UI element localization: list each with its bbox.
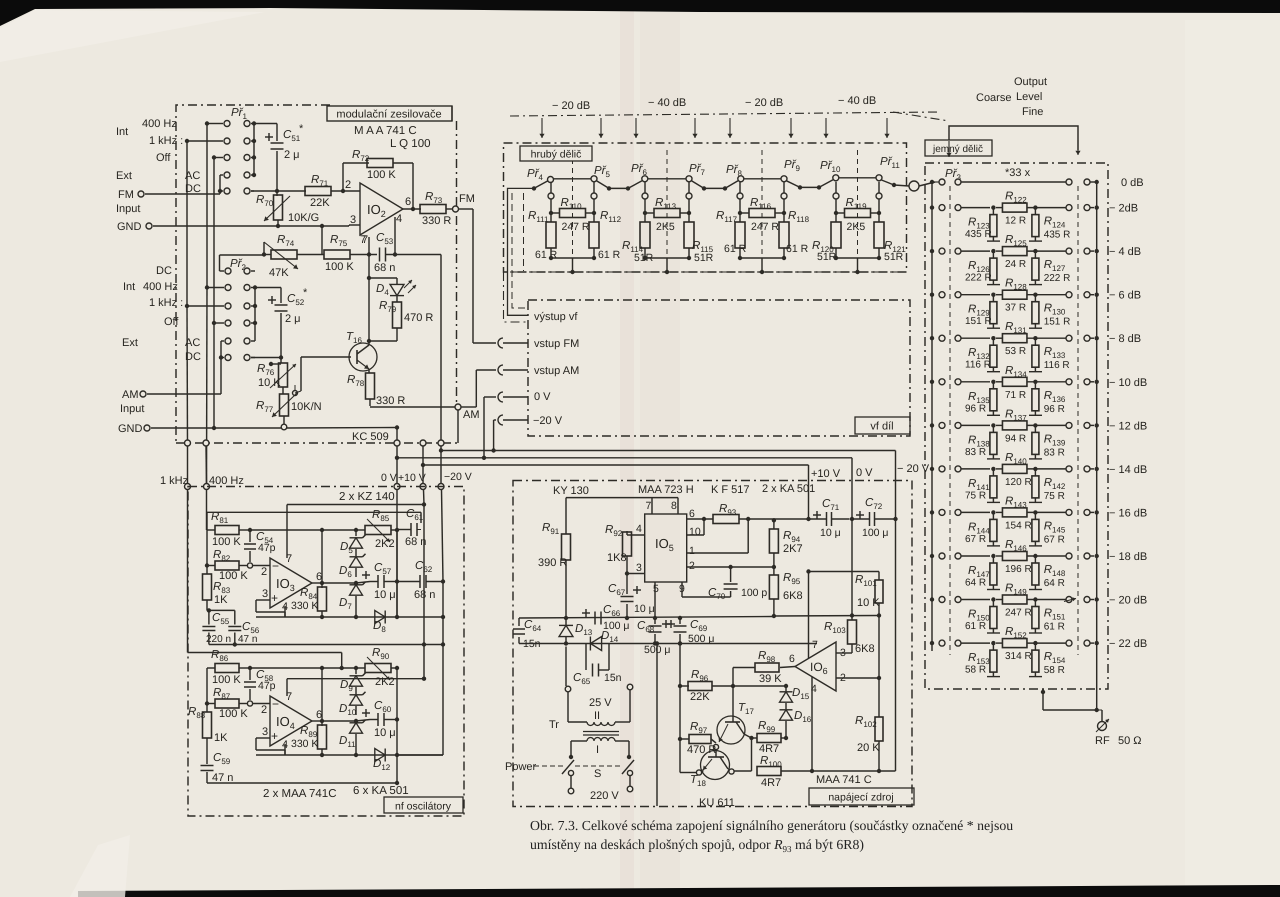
svg-text:2K2: 2K2 (375, 538, 395, 550)
PK1 bus (253, 124, 255, 176)
switch coupling dashed right (1077, 186, 1079, 655)
svg-text:22K: 22K (310, 197, 330, 209)
svg-text:12 R: 12 R (1005, 216, 1026, 227)
pin9 wire (681, 582, 683, 597)
resistor R91 (565, 498, 567, 534)
svg-text:51R: 51R (694, 252, 714, 264)
svg-text:5: 5 (653, 583, 659, 595)
capacitor C59 (206, 749, 208, 765)
column -10 left (679, 644, 681, 740)
svg-text:nf oscilátory: nf oscilátory (395, 801, 452, 813)
pin3 bracket (256, 599, 270, 601)
resistor R115 (684, 222, 694, 248)
resistor R150 (992, 600, 994, 607)
svg-text:20 K: 20 K (857, 742, 880, 754)
svg-text:2K5: 2K5 (847, 221, 866, 233)
svg-text:10K/G: 10K/G (288, 212, 319, 224)
wire Off to PK2 (214, 322, 224, 324)
svg-text:napájecí zdroj: napájecí zdroj (828, 792, 893, 804)
napajeci zdroj label box (809, 788, 914, 805)
svg-text:M A A 741 C: M A A 741 C (354, 125, 417, 137)
attenuator section R119 (833, 193, 839, 199)
svg-text:− 40 dB: − 40 dB (648, 97, 686, 109)
svg-text:61 R: 61 R (1044, 622, 1065, 633)
svg-text:61 R: 61 R (786, 243, 809, 255)
capacitor C_out C57 (362, 574, 370, 576)
svg-text:314 R: 314 R (1005, 651, 1032, 662)
op-amp IO6 (795, 642, 836, 691)
capacitor C66 (594, 612, 596, 625)
resistor R73 (420, 205, 446, 214)
svg-text:− 22 dB: − 22 dB (1109, 638, 1147, 650)
resistor R83 (205, 563, 209, 567)
svg-text:vf díl: vf díl (870, 421, 893, 433)
collector node (367, 339, 371, 343)
node pin2 (331, 190, 360, 192)
transistor T16 (349, 343, 377, 371)
op-amp IO3 (270, 558, 312, 608)
svg-text:330 R: 330 R (376, 395, 405, 407)
svg-text:4: 4 (636, 523, 642, 535)
resistor R151 (1034, 600, 1036, 607)
pin3 wire (627, 573, 645, 575)
osc1 ground return (209, 644, 443, 646)
svg-text:0 V: 0 V (856, 467, 873, 479)
resistor R94 (773, 520, 775, 529)
svg-text:Output: Output (1014, 76, 1047, 88)
wire 400Hz feed osc1 (206, 490, 208, 531)
svg-text:vstup AM: vstup AM (534, 365, 579, 377)
resistor R97 (680, 738, 689, 740)
transformer core (583, 731, 619, 733)
capacitor C53 (379, 248, 381, 262)
wire DC2 to R76 node (251, 357, 281, 359)
resistor R111 (546, 222, 556, 248)
IC IO5 (645, 514, 687, 582)
svg-text:400 Hz: 400 Hz (209, 475, 244, 487)
rail -20V horizontal (438, 440, 444, 446)
-20V wire to vf (493, 420, 495, 451)
wire 400Hz to PK2 (207, 287, 224, 289)
svg-text:2K5: 2K5 (656, 221, 675, 233)
diode D14 (590, 637, 601, 651)
svg-text:Fine: Fine (1022, 106, 1043, 118)
resistor R103 (848, 620, 857, 644)
svg-text:hrubý dělič: hrubý dělič (531, 149, 582, 161)
transistor T18 (701, 751, 730, 780)
transformer primary (587, 738, 615, 742)
svg-text:58 R: 58 R (965, 665, 986, 676)
diode D12 (375, 749, 385, 762)
svg-text:−: − (272, 559, 279, 573)
svg-text:247 R: 247 R (562, 221, 590, 233)
+10V column osc (423, 505, 425, 679)
svg-text:120 R: 120 R (1005, 477, 1032, 488)
svg-text:435 R: 435 R (965, 229, 992, 240)
svg-text:100 K: 100 K (367, 169, 396, 181)
svg-text:DC: DC (156, 265, 172, 277)
svg-text:51R: 51R (884, 251, 904, 263)
node column T17 (732, 668, 734, 717)
pin7 wire (286, 679, 288, 696)
svg-text:0 dB: 0 dB (1121, 177, 1144, 189)
resistor R138 (992, 425, 994, 432)
resistor R139 (1034, 425, 1036, 432)
svg-text:25 V: 25 V (589, 697, 612, 709)
svg-text:151 R: 151 R (1044, 317, 1071, 328)
svg-text:Ext: Ext (122, 337, 138, 349)
svg-text:96 R: 96 R (965, 403, 986, 414)
svg-text:330 K: 330 K (291, 738, 318, 750)
svg-text:64 R: 64 R (1044, 578, 1065, 589)
svg-text:KC 509: KC 509 (352, 431, 389, 443)
svg-text:83 R: 83 R (1044, 447, 1065, 458)
svg-text:1 kHz :: 1 kHz : (149, 297, 183, 309)
RF connector (1098, 722, 1107, 731)
bus sag 2-3 (692, 181, 705, 189)
svg-text:FM: FM (118, 189, 134, 201)
wire R75 to C53 (350, 254, 377, 256)
svg-text:Input: Input (116, 203, 140, 215)
svg-text:*: * (299, 123, 304, 135)
svg-text:−20 V: −20 V (444, 471, 472, 483)
svg-text:S: S (594, 768, 601, 780)
capacitor C69 (678, 616, 682, 620)
resistor R89 (312, 720, 322, 722)
resistor R92 (627, 534, 645, 536)
resistor R119 (845, 209, 871, 218)
diode D13 (559, 625, 573, 636)
svg-text:Int: Int (116, 126, 128, 138)
ladder rail − 6 dB (930, 293, 934, 297)
ladder right bus (1096, 182, 1098, 710)
resistor R100 (757, 767, 781, 776)
svg-text:+: + (271, 729, 278, 743)
psu column 0V down (851, 519, 853, 620)
svg-text:4R7: 4R7 (761, 777, 781, 789)
section ground joins (739, 248, 741, 258)
svg-text:75 R: 75 R (965, 490, 986, 501)
svg-text:470 R: 470 R (687, 744, 716, 756)
resistor R148 (1034, 556, 1036, 563)
bus within section 1 (554, 178, 591, 180)
svg-text:220 n: 220 n (206, 634, 231, 645)
resistor R134 (1002, 377, 1026, 386)
resistor R135 (992, 382, 994, 389)
capacitor C65 (585, 644, 587, 671)
capacitor C71 (813, 514, 821, 516)
resistor R113 (654, 209, 680, 218)
svg-text:47 n: 47 n (212, 772, 233, 784)
GND AM wire (151, 427, 281, 429)
resistor R145 (1034, 512, 1036, 519)
svg-text:− 20 dB: − 20 dB (552, 100, 590, 112)
svg-text:6: 6 (405, 196, 411, 208)
resistor R132 (992, 338, 994, 345)
svg-text:I: I (596, 744, 599, 756)
capacitor C52 (255, 287, 281, 289)
ladder rail − 12 dB (930, 423, 934, 427)
diode chain (354, 528, 358, 532)
svg-text:116 R: 116 R (965, 360, 991, 371)
output row (322, 582, 356, 584)
svg-text:4: 4 (396, 213, 402, 225)
svg-text:GND: GND (118, 423, 143, 435)
resistor R75 (297, 254, 324, 256)
dB bracket line (510, 112, 940, 116)
svg-text:1K8: 1K8 (607, 552, 627, 564)
wire PK2 DC to R74 (219, 255, 221, 271)
svg-text:100 K: 100 K (212, 536, 241, 548)
vertical +10V PSU (808, 465, 810, 519)
svg-text:KU 611: KU 611 (699, 797, 735, 809)
attenuator bottom bus (510, 271, 906, 273)
svg-text:− 4 dB: − 4 dB (1109, 246, 1141, 258)
svg-text:výstup vf: výstup vf (534, 311, 578, 323)
wire DC row to R70 node (251, 190, 277, 192)
svg-text:100 μ: 100 μ (862, 527, 889, 539)
psu bottom row (734, 770, 752, 772)
resistor R136 (1034, 382, 1036, 389)
svg-text:8: 8 (671, 500, 677, 512)
output big circle (909, 181, 919, 191)
0V wire to vf (483, 397, 485, 458)
capacitor C70 (730, 567, 732, 582)
resistor R86 (207, 667, 215, 669)
bus within section 3 (744, 178, 781, 180)
pin4 wire io6 (811, 677, 813, 771)
svg-text:47 n: 47 n (238, 634, 257, 645)
vertical 0V into oscillators (394, 484, 400, 490)
bus to output (882, 180, 895, 185)
hruby delic label box (520, 146, 592, 161)
svg-text:GND: GND (117, 221, 142, 233)
ladder rail − 22 dB (930, 641, 934, 645)
svg-text:−: − (272, 697, 279, 711)
svg-text:*: * (303, 287, 308, 299)
resistor R118 (779, 222, 789, 248)
vertical 0V PSU (851, 458, 853, 519)
GND wire to pin3 (153, 225, 349, 227)
resistor R146 (1002, 552, 1026, 561)
svg-text:+10 V: +10 V (398, 472, 426, 484)
svg-text:0 V: 0 V (381, 472, 397, 484)
ladder rail − 4 dB (930, 249, 934, 253)
resistor R98 (780, 667, 795, 668)
resistor R99 (757, 734, 781, 743)
svg-text:22K: 22K (690, 691, 710, 703)
attenuator section R110 (548, 193, 554, 199)
section ground joins (835, 248, 837, 258)
svg-text:222 R: 222 R (1044, 273, 1071, 284)
ladder rail − 2dB (930, 205, 934, 209)
svg-text:2: 2 (345, 179, 351, 191)
label box modulacni zesilovace (327, 106, 452, 121)
svg-text:− 16 dB: − 16 dB (1109, 507, 1147, 519)
svg-text:MAA 741 C: MAA 741 C (816, 774, 872, 786)
svg-text:64 R: 64 R (965, 578, 986, 589)
svg-text:100 K: 100 K (219, 708, 248, 720)
ladder rail − 10 dB (930, 380, 934, 384)
wire pin3 branch to R74 line (321, 226, 323, 254)
svg-text:Coarse: Coarse (976, 92, 1011, 104)
pin7 wire io6 (808, 572, 810, 659)
rail +10V horizontal (420, 440, 426, 446)
potentiometer R70 (276, 191, 278, 196)
svg-text:− 18 dB: − 18 dB (1109, 551, 1147, 563)
section coupling dashed (857, 150, 859, 258)
svg-text:Ext: Ext (116, 170, 132, 182)
module A bottom circles (185, 440, 191, 446)
svg-text:10 μ: 10 μ (374, 589, 396, 601)
svg-text:Tr: Tr (549, 719, 559, 731)
resistor R112 (589, 222, 599, 248)
potentiometer R85 (356, 529, 365, 531)
section coupling dashed (572, 150, 574, 258)
svg-text:II: II (594, 710, 600, 722)
wire 1kHz to PK2 (187, 305, 224, 307)
svg-text:1 kHz :: 1 kHz : (149, 135, 183, 147)
svg-text:7: 7 (646, 500, 652, 512)
svg-text:68 n: 68 n (374, 262, 395, 274)
AM wire to PK2 (147, 393, 221, 395)
dash-dot link to coarse bracket (893, 112, 949, 121)
coarse bracket left arrow tip (948, 141, 950, 157)
svg-text:10 μ: 10 μ (820, 527, 841, 539)
ladder rail − 8 dB (930, 336, 934, 340)
svg-text:2 x MAA 741C: 2 x MAA 741C (263, 788, 337, 800)
svg-text:FM: FM (459, 193, 475, 205)
PK4 input arm (532, 186, 536, 190)
pin7 wire (368, 237, 370, 255)
svg-text:6K8: 6K8 (855, 643, 875, 655)
svg-text:Off: Off (156, 152, 171, 164)
resistor R153 (992, 643, 994, 650)
T18 emitter wire (680, 772, 696, 774)
svg-text:3: 3 (262, 588, 268, 600)
svg-text:51R: 51R (817, 251, 837, 263)
svg-text:RF: RF (1095, 735, 1110, 747)
section coupling dashed (666, 150, 668, 258)
+10V internal rail (680, 643, 817, 645)
svg-text:100 K: 100 K (219, 570, 248, 582)
node column 0V (396, 528, 398, 617)
base wire T16 (301, 356, 351, 358)
svg-text:61 R: 61 R (535, 249, 558, 261)
svg-text:330 R: 330 R (422, 215, 451, 227)
resistor R142 (1034, 469, 1036, 476)
diode D8 (375, 611, 385, 624)
resistor R131 (1002, 334, 1026, 343)
svg-text:7: 7 (812, 639, 818, 651)
svg-text:435 R: 435 R (1044, 230, 1071, 241)
PK2 bus (254, 288, 256, 342)
resistor R71 (305, 187, 331, 196)
pin5 wire (654, 582, 656, 618)
resistor R144 (992, 512, 994, 519)
pin1 wire (687, 552, 748, 554)
svg-text:Input: Input (120, 403, 144, 415)
svg-text:68 n: 68 n (405, 536, 426, 548)
svg-text:2 μ: 2 μ (284, 149, 300, 161)
potentiometer R74 (262, 252, 266, 256)
svg-text:2 x KZ 140: 2 x KZ 140 (339, 491, 395, 503)
output node wire (403, 208, 421, 210)
svg-text:247 R: 247 R (1005, 608, 1032, 619)
svg-text:24 R: 24 R (1005, 259, 1026, 270)
capacitor C64 (518, 618, 520, 626)
svg-text:2: 2 (689, 560, 695, 572)
svg-text:− 20 dB: − 20 dB (745, 97, 783, 109)
resistor R126 (992, 251, 994, 258)
svg-text:2 μ: 2 μ (285, 313, 301, 325)
wire R70 to R71 (277, 190, 306, 192)
resistor R81 (206, 512, 208, 530)
resistor R82 (206, 530, 208, 566)
svg-text:10 μ: 10 μ (374, 727, 396, 739)
pin3 wire io6 (836, 652, 852, 654)
svg-text:47p: 47p (258, 680, 276, 692)
resistor R93 (713, 515, 739, 524)
resistor R147 (992, 556, 994, 563)
svg-text:L Q 100: L Q 100 (390, 138, 431, 150)
resistor R102 (875, 717, 883, 741)
bottom black scanner band (78, 885, 1280, 897)
potentiometer R77 (282, 387, 284, 394)
output row (322, 720, 356, 722)
svg-text:AM: AM (463, 409, 480, 421)
attenuator left bundle (508, 188, 535, 315)
bottom row (256, 754, 443, 756)
svg-text:10 K: 10 K (857, 597, 880, 609)
svg-text:58 R: 58 R (1044, 665, 1065, 676)
capacitor C62 (419, 575, 421, 588)
svg-text:390 R: 390 R (538, 557, 567, 569)
svg-text:116 R: 116 R (1044, 360, 1070, 371)
FM output terminal (446, 208, 453, 210)
svg-text:vstup FM: vstup FM (534, 338, 579, 350)
pin6 wire and R93 (687, 518, 713, 520)
bus 1kHz vertical (186, 141, 188, 306)
pin10 wire (687, 534, 704, 536)
svg-text:MAA 723 H: MAA 723 H (638, 484, 694, 496)
svg-text:− 10 dB: − 10 dB (1109, 377, 1147, 389)
bracket Ext AC PK1 (220, 174, 223, 176)
resistor R127 (1034, 251, 1036, 258)
ladder output wires (1042, 689, 1044, 710)
svg-text:220 V: 220 V (590, 790, 619, 802)
svg-text:400 Hz: 400 Hz (142, 118, 177, 130)
pin7 pin8 top wires (566, 497, 678, 499)
svg-text:modulační zesilovače: modulační zesilovače (336, 109, 441, 121)
resistor R78 (366, 373, 375, 399)
svg-text:47p: 47p (258, 542, 276, 554)
diode chain (354, 666, 358, 670)
capacitor C55 (207, 610, 210, 612)
resistor R152 (1002, 639, 1026, 648)
svg-text:− 8 dB: − 8 dB (1109, 333, 1141, 345)
wire T16 base from wiper (295, 391, 301, 393)
svg-text:330 K: 330 K (291, 600, 318, 612)
section ground joins (550, 248, 552, 258)
svg-text:154 R: 154 R (1005, 520, 1032, 531)
svg-text:2K2: 2K2 (375, 676, 395, 688)
svg-text:75 R: 75 R (1044, 491, 1065, 502)
switch coupling dashed left (949, 186, 951, 655)
top black scanner band (0, 0, 1280, 26)
capacitor C54 (249, 530, 251, 542)
bus sag 1-2 (597, 181, 610, 189)
